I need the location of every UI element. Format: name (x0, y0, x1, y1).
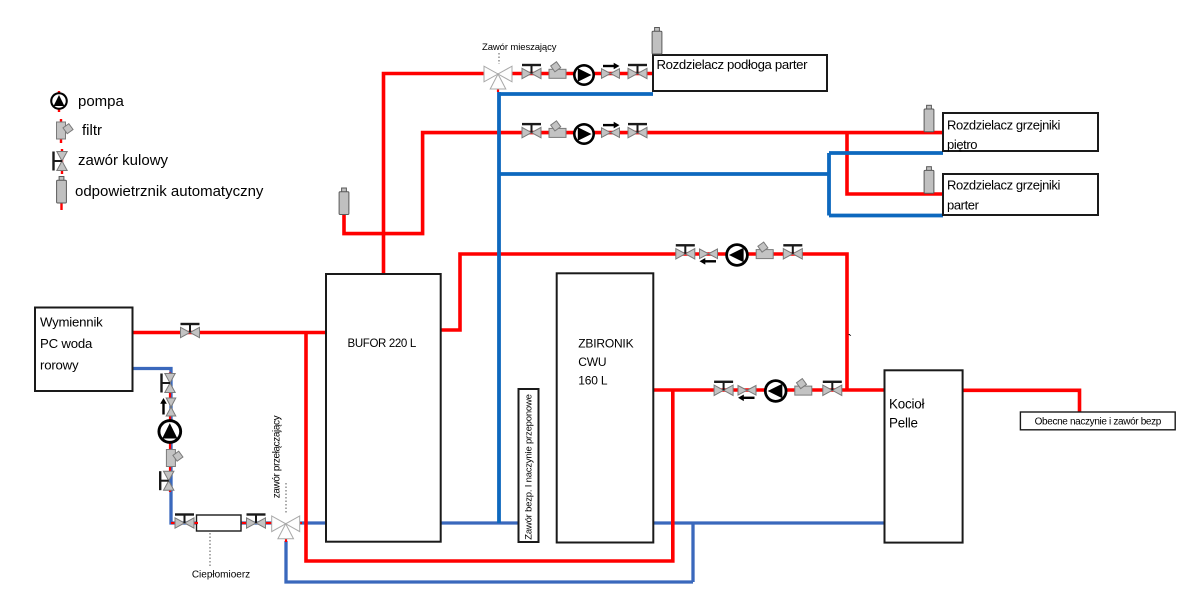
svg-text:Rozdzielacz grzejniki: Rozdzielacz grzejniki (947, 178, 1060, 193)
svg-text:Rozdzielacz grzejniki: Rozdzielacz grzejniki (947, 118, 1060, 133)
svg-text:Rozdzielacz podłoga parter: Rozdzielacz podłoga parter (657, 57, 809, 72)
svg-text:odpowietrznik automatyczny: odpowietrznik automatyczny (75, 183, 264, 200)
svg-text:pompa: pompa (78, 93, 125, 110)
svg-text:Zawór mieszający: Zawór mieszający (482, 42, 557, 53)
svg-text:Zawór bezp. I naczynie przepon: Zawór bezp. I naczynie przeponowe (524, 394, 535, 539)
svg-text:Kocioł: Kocioł (889, 397, 924, 412)
svg-text:rorowy: rorowy (40, 358, 79, 373)
svg-text:Ciepłomioerz: Ciepłomioerz (192, 570, 250, 581)
svg-text:CWU: CWU (578, 355, 606, 369)
svg-text:piętro: piętro (947, 137, 977, 152)
svg-text:Pelle: Pelle (889, 416, 918, 431)
svg-text:ZBIRONIK: ZBIRONIK (578, 336, 633, 350)
svg-text:160 L: 160 L (578, 374, 608, 388)
svg-text:Obecne naczynie i zawór bezp: Obecne naczynie i zawór bezp (1035, 417, 1162, 428)
svg-text:zawór kulowy: zawór kulowy (78, 152, 169, 169)
svg-text:PC woda: PC woda (40, 336, 93, 351)
svg-text:filtr: filtr (82, 122, 102, 139)
svg-text:Wymiennik: Wymiennik (40, 315, 103, 330)
svg-text:`: ` (848, 331, 853, 347)
svg-text:parter: parter (947, 198, 980, 213)
svg-text:BUFOR 220 L: BUFOR 220 L (348, 338, 417, 350)
svg-text:zawór przełączający: zawór przełączający (272, 415, 283, 498)
